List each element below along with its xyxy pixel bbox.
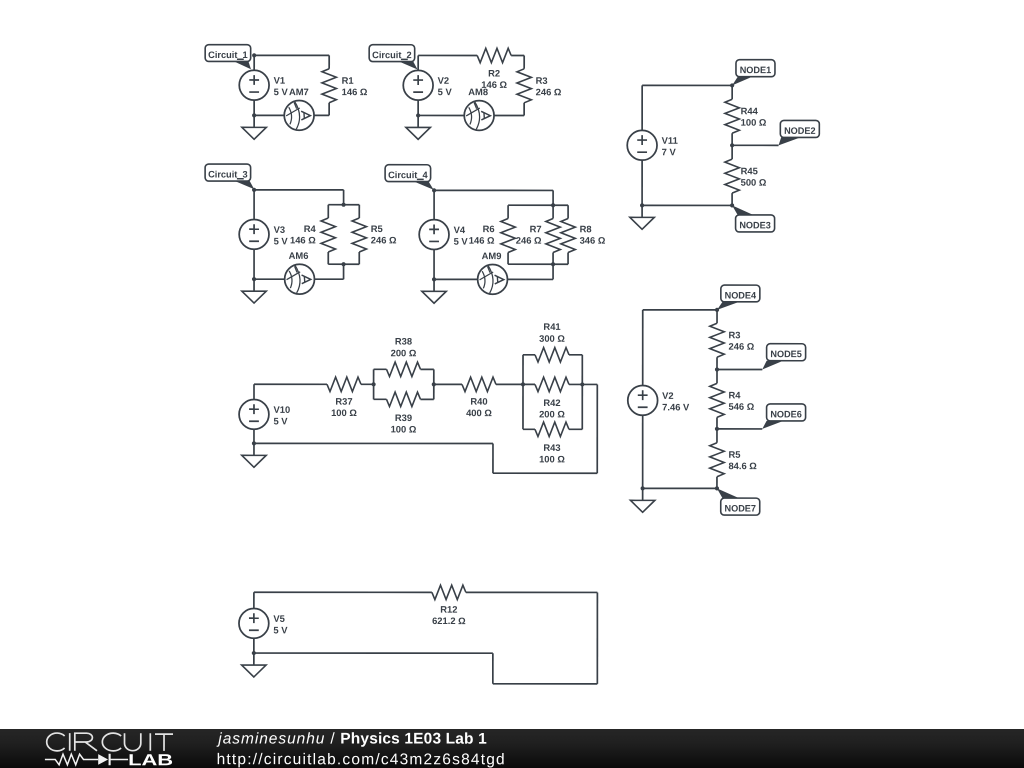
- svg-text:/: /: [330, 731, 335, 748]
- svg-text:LAB: LAB: [128, 752, 173, 768]
- svg-text:jasminesunhu: jasminesunhu: [216, 730, 325, 747]
- svg-text:http://circuitlab.com/c43m2z6s: http://circuitlab.com/c43m2z6s84tgd: [217, 751, 506, 768]
- svg-text:Physics 1E03 Lab 1: Physics 1E03 Lab 1: [340, 731, 487, 748]
